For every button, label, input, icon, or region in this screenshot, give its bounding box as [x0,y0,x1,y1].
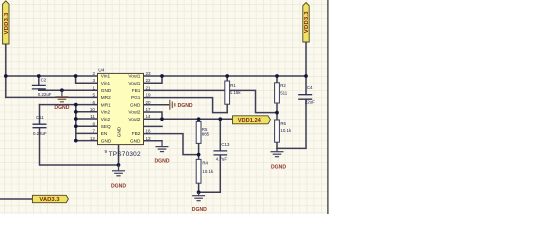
svg-text:10.1k: 10.1k [280,128,292,133]
svg-text:Vin1: Vin1 [101,74,111,79]
svg-text:GND: GND [101,88,112,93]
svg-text:GND: GND [130,138,141,143]
svg-text:FB1: FB1 [132,88,141,93]
svg-text:17: 17 [146,107,152,112]
svg-text:Vin2: Vin2 [101,110,111,115]
svg-text:PG1: PG1 [131,95,141,100]
svg-text:DGND: DGND [54,105,69,111]
svg-text:U4: U4 [98,67,104,73]
svg-text:Vout2: Vout2 [128,110,140,115]
svg-text:21: 21 [146,85,152,90]
svg-text:1.15k: 1.15k [230,90,242,95]
svg-text:DGND: DGND [271,164,286,170]
svg-text:VAD3.3: VAD3.3 [39,197,60,203]
svg-text:TPS70302: TPS70302 [109,151,141,158]
svg-text:6: 6 [92,100,95,105]
svg-text:20: 20 [146,100,152,105]
svg-text:EN: EN [101,131,108,136]
svg-text:10.1k: 10.1k [202,169,214,174]
svg-text:0.22uF: 0.22uF [38,92,52,97]
svg-text:GND: GND [101,138,112,143]
svg-text:885: 885 [202,131,210,136]
svg-text:10: 10 [90,107,96,112]
svg-text:SEQ: SEQ [101,124,111,129]
svg-text:DGND: DGND [192,207,207,213]
svg-text:C4: C4 [307,85,313,90]
svg-text:23: 23 [146,71,152,76]
svg-text:Vin2: Vin2 [101,117,111,122]
svg-text:C2: C2 [41,78,47,83]
svg-text:Vout1: Vout1 [128,74,140,79]
svg-text:1: 1 [92,85,95,90]
svg-text:GND: GND [117,126,122,137]
svg-text:22: 22 [146,78,152,83]
svg-text:R1: R1 [230,83,236,88]
svg-text:DGND: DGND [178,103,193,109]
svg-text:0.22uF: 0.22uF [33,131,47,136]
svg-text:MR2: MR2 [101,95,111,100]
svg-text:5: 5 [92,93,95,98]
svg-text:Vout2: Vout2 [128,117,140,122]
svg-text:R4: R4 [202,161,208,166]
svg-text:2: 2 [92,71,95,76]
svg-text:DGND: DGND [111,184,126,190]
svg-text:12: 12 [90,136,96,141]
svg-text:14: 14 [146,114,152,119]
svg-text:22uF: 22uF [305,99,315,104]
svg-text:R6: R6 [280,121,286,126]
svg-text:8: 8 [92,121,95,126]
svg-text:VDD3.3: VDD3.3 [304,11,310,33]
svg-text:9: 9 [105,149,108,154]
svg-text:GND: GND [130,102,141,107]
svg-text:DGND: DGND [155,159,170,165]
svg-text:C11: C11 [36,115,44,120]
svg-text:C13: C13 [221,142,230,147]
svg-text:7: 7 [92,129,95,134]
svg-text:Vin1: Vin1 [101,81,111,86]
svg-text:511: 511 [280,91,288,96]
svg-text:Vout1: Vout1 [128,81,140,86]
svg-text:16: 16 [146,129,152,134]
svg-text:3: 3 [92,78,95,83]
svg-text:R2: R2 [280,83,286,88]
svg-text:VDD1.24: VDD1.24 [238,118,262,124]
svg-text:19: 19 [146,93,152,98]
svg-text:VDD3.3: VDD3.3 [4,12,10,34]
svg-text:MR1: MR1 [101,102,111,107]
svg-text:4.7uF: 4.7uF [216,157,228,162]
svg-text:13: 13 [146,136,152,141]
svg-text:FB2: FB2 [132,131,141,136]
svg-text:11: 11 [90,114,95,119]
